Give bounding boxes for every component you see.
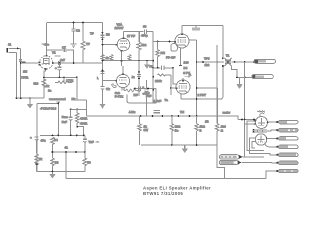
wire UL tap thick <box>216 88 218 99</box>
node TP a <box>202 61 204 63</box>
svg-text:C7: C7 <box>62 46 66 50</box>
node sec b <box>236 76 238 78</box>
resistor R5 <box>55 78 74 83</box>
svg-text:5uF: 5uF <box>62 120 67 124</box>
node bus2 c <box>76 135 78 137</box>
svg-text:T1: T1 <box>226 54 230 58</box>
node gnd-bus <box>29 97 31 99</box>
svg-text:1.5uF: 1.5uF <box>154 99 162 103</box>
wire coupling node vertical <box>152 32 154 103</box>
capacitor input blocking <box>19 60 22 62</box>
svg-text:7a: 7a <box>165 98 169 102</box>
capacitor C3 coupling <box>58 58 102 65</box>
svg-text:1n: 1n <box>48 89 52 93</box>
svg-text:D4: D4 <box>184 66 188 70</box>
wire V1 grid <box>21 62 39 64</box>
capacitor C14 <box>83 135 99 152</box>
node bus e <box>178 115 180 117</box>
node mid link b <box>75 151 77 153</box>
wire V1 cathode <box>44 70 46 98</box>
connector P6 <box>276 161 298 164</box>
capacitor Ck bypass <box>101 87 111 100</box>
wire OPT left leg lower <box>222 67 224 98</box>
node y60 b <box>121 60 123 62</box>
wire b2 stub <box>63 77 65 82</box>
node J1 tip <box>17 48 19 50</box>
node bus g <box>196 115 198 117</box>
node rail-R3 <box>82 22 84 24</box>
wire bars to pill2 <box>267 129 277 132</box>
wire B+ top rail <box>47 22 103 24</box>
svg-text:5=77k: 5=77k <box>115 94 124 98</box>
resistor R17 <box>35 154 43 171</box>
node y60 d <box>146 60 148 62</box>
svg-text:400R: 400R <box>80 117 88 121</box>
wire NFB mid vertical <box>57 102 61 136</box>
wire R12 top link <box>71 108 87 110</box>
resistor R15 <box>195 116 206 145</box>
svg-text:A: A <box>189 73 191 77</box>
wire bus2 <box>40 134 84 136</box>
wire V1 plate riser <box>46 23 48 51</box>
svg-text:B+: B+ <box>175 128 179 132</box>
resistor R3 <box>81 23 94 64</box>
svg-text:caaaaaaaad: caaaaaaaad <box>49 97 66 101</box>
wire V2B plate link <box>121 61 123 66</box>
wire V6 left loop d <box>252 142 256 148</box>
ground bottom left <box>49 171 55 178</box>
resistor R14 <box>170 116 181 145</box>
svg-text:1M: 1M <box>23 70 28 74</box>
node voltage labels <box>183 61 190 76</box>
wire V2A plate line <box>124 31 144 33</box>
svg-text:-POR-POL8: -POR-POL8 <box>40 106 57 110</box>
wire rail right drop <box>102 23 104 87</box>
wire V6 to pill4 <box>265 143 277 146</box>
node b2 c <box>63 76 65 78</box>
connector J1 <box>7 43 21 53</box>
svg-text:J1: J1 <box>8 43 12 47</box>
node R10 <box>170 87 172 89</box>
node R12 mid <box>76 126 78 128</box>
node bus d <box>171 115 173 117</box>
capacitor C5 coupling <box>127 24 153 38</box>
wire bottom long run <box>66 177 266 179</box>
connector P2 <box>276 129 298 132</box>
resistor Rk2 <box>101 55 109 61</box>
node heater bars <box>253 129 268 133</box>
transistor V2B triode <box>115 66 129 90</box>
node bus2 a <box>52 135 54 137</box>
svg-text:B8: B8 <box>55 160 59 164</box>
node NFB branch <box>65 151 67 153</box>
capacitor C12 <box>134 86 156 95</box>
wire bottom link <box>37 170 85 172</box>
wire V5 top feed <box>238 119 257 121</box>
svg-text:F.F: F.F <box>134 93 138 97</box>
node V4 tp arrow <box>185 73 192 79</box>
node bus a <box>140 115 142 117</box>
svg-text:E8: E8 <box>106 33 110 37</box>
wire J1 sleeve down <box>16 52 18 98</box>
wire V4 grid <box>171 87 177 89</box>
node sec c <box>234 61 236 63</box>
node bus labels <box>129 110 230 115</box>
node V3 grid b <box>169 41 171 43</box>
resistor blob right <box>128 55 131 61</box>
node mid link a <box>52 151 54 153</box>
svg-text:5k2: 5k2 <box>142 43 147 47</box>
transistor V2A triode <box>115 23 130 61</box>
svg-text:FFI: FFI <box>161 51 166 55</box>
wire input ground bus <box>16 97 44 99</box>
svg-text:Ck: Ck <box>106 87 110 91</box>
svg-text:V1: V1 <box>52 51 56 55</box>
node collect a <box>171 144 173 146</box>
wire screen cross <box>197 87 218 89</box>
svg-text:2 PDT: 2 PDT <box>198 93 207 97</box>
node collect b <box>196 144 198 146</box>
svg-text:+?uF: +?uF <box>143 92 150 96</box>
transistor V3 pentode <box>174 26 196 66</box>
wire OPT left leg <box>222 26 224 59</box>
wire TP line <box>197 61 218 63</box>
node bottom a <box>52 170 54 172</box>
node rail-C2 <box>73 22 75 24</box>
capacitor C16 <box>101 32 111 40</box>
wire NFB left tall <box>36 104 38 172</box>
connector P1 <box>276 120 298 123</box>
node R12 top <box>76 109 78 111</box>
svg-text:+: + <box>55 66 57 70</box>
connector P5 <box>276 153 298 156</box>
node bus2 b <box>57 135 59 137</box>
wire pocket out <box>127 89 156 103</box>
wire V3 screen right <box>196 40 198 116</box>
wire V5 left loop b <box>245 123 255 125</box>
wire lower bus b2 <box>44 76 77 78</box>
node loop b <box>216 98 218 100</box>
node b2 b <box>59 76 61 78</box>
node b2 d <box>76 76 78 78</box>
ground y60 stub <box>144 61 153 69</box>
connector P4 <box>276 145 298 148</box>
wire heater run a <box>243 156 264 158</box>
svg-text:1k2: 1k2 <box>205 63 210 67</box>
node TP label <box>204 56 210 67</box>
wire mid ground bus <box>87 116 239 120</box>
svg-text:Rk: Rk <box>72 97 76 101</box>
svg-text:TP9: TP9 <box>204 56 210 60</box>
ground OPT <box>236 77 242 89</box>
capacitor C9 coupling <box>153 66 177 84</box>
svg-text:1k: 1k <box>46 84 50 88</box>
wire V2B grid <box>103 80 117 82</box>
svg-text:B: B <box>200 128 202 132</box>
capacitor C15 <box>97 72 105 81</box>
svg-text:+: + <box>30 136 32 140</box>
op-amp V5 regulator <box>256 111 268 129</box>
node screen cross b <box>196 98 198 100</box>
transistor V4 pentode <box>175 78 190 99</box>
svg-text:Aspen ELI Speaker Amplifier: Aspen ELI Speaker Amplifier <box>143 186 211 191</box>
resistor R13 <box>138 116 148 145</box>
svg-text:7M: 7M <box>180 110 185 114</box>
node TP dash <box>55 55 61 56</box>
resistor R18 <box>51 137 58 152</box>
node pocket a <box>134 88 136 90</box>
svg-text:4u7: 4u7 <box>60 58 65 62</box>
svg-text:17 PF: 17 PF <box>127 34 135 38</box>
svg-text:3k3: 3k3 <box>34 82 39 86</box>
wire TP to T1 <box>217 61 224 63</box>
connector H1 heater <box>219 155 242 159</box>
capacitor C6 <box>132 71 142 79</box>
wire NFB box top <box>37 103 58 105</box>
svg-text:BTW91 7/31/2005: BTW91 7/31/2005 <box>143 191 183 196</box>
svg-text:TP: TP <box>90 32 94 36</box>
svg-text:48+: 48+ <box>44 43 49 47</box>
wire V2A grid <box>103 44 118 46</box>
wire secondary bottom <box>237 76 254 78</box>
resistor R20 <box>83 152 91 171</box>
wire V6 left loop c <box>249 138 277 155</box>
svg-text:under: under <box>223 111 231 115</box>
resistor Rk1 <box>34 79 50 88</box>
node bottom b <box>36 164 38 166</box>
node x153 <box>152 60 154 62</box>
svg-text:47u: 47u <box>41 139 46 143</box>
wire bus elbow <box>86 100 88 116</box>
wire V3 plate top <box>182 25 223 27</box>
node tip-bus <box>20 97 22 99</box>
node x153 joints <box>152 67 154 69</box>
node NFB text <box>40 97 76 110</box>
wire bus y60 <box>103 60 154 62</box>
transformer T1 <box>222 54 232 67</box>
wire secondary top <box>232 61 255 63</box>
resistor R7 plate load <box>137 32 147 96</box>
svg-text:2k: 2k <box>39 157 43 161</box>
svg-text:I.: I. <box>97 76 99 80</box>
connector SPK- <box>252 75 273 79</box>
resistor R1 grid stopper <box>21 62 29 79</box>
node screen cross a <box>196 87 198 89</box>
node V2A grid left <box>102 44 104 46</box>
svg-text:B4: B4 <box>54 138 58 142</box>
capacitor C10 electrolytic <box>62 109 73 136</box>
node V5 feed <box>241 119 243 121</box>
node y60 c <box>138 60 140 62</box>
wire B+ feed long <box>244 62 246 157</box>
wire V5 left loop a <box>247 121 264 151</box>
node y60 a <box>102 60 104 62</box>
node C9 left <box>157 67 159 69</box>
connector P7 <box>276 169 298 172</box>
op-amp V1 pentode <box>39 50 60 70</box>
svg-text:220k: 220k <box>155 79 162 83</box>
node bus f <box>189 115 191 117</box>
svg-text:41: 41 <box>65 145 69 149</box>
connector SPK+ <box>254 59 276 63</box>
svg-text:1k: 1k <box>106 56 110 60</box>
ground collect <box>182 145 188 153</box>
wire lower collect <box>141 144 217 146</box>
svg-text:470p: 470p <box>141 34 148 38</box>
wire UL tap vertical <box>216 45 218 88</box>
node cap-right <box>73 62 75 64</box>
wire mid link <box>51 151 85 153</box>
node V2A plate <box>138 31 140 33</box>
resistor R16 <box>205 116 226 145</box>
wire V5 to pill1 <box>268 121 278 123</box>
wire nfb top link <box>75 99 87 101</box>
svg-text:400R: 400R <box>80 122 88 126</box>
node bus2 d <box>83 135 85 137</box>
node 48V <box>42 43 50 47</box>
wire heater run b <box>242 161 272 163</box>
node V3 grid a <box>157 41 159 43</box>
wire V3 grid curl <box>171 44 178 52</box>
op-amp V6 regulator <box>255 134 266 145</box>
connector P3 <box>276 137 298 140</box>
capacitor C7 <box>134 88 142 97</box>
svg-text:1B: 1B <box>205 119 209 123</box>
node V5 pins <box>254 120 269 139</box>
resistor R12 <box>75 109 88 135</box>
node pocket b <box>147 88 149 90</box>
connector H2 heater <box>219 160 241 164</box>
wire run to P7 <box>266 171 277 178</box>
capacitor C7 <box>47 46 74 63</box>
svg-text:12AX7: 12AX7 <box>115 26 124 30</box>
wire V4 plate loop <box>181 97 223 99</box>
node sec d <box>244 76 246 78</box>
wire loop drop thick <box>216 99 218 116</box>
svg-text:Jn: Jn <box>132 75 136 79</box>
wire V3 grid <box>153 41 175 43</box>
svg-text:J.Mu: J.Mu <box>129 110 136 114</box>
node plate-cap <box>58 62 60 64</box>
node loop a <box>196 98 198 100</box>
svg-text:PP-GF: PP-GF <box>166 55 175 59</box>
wire J1 tip down <box>20 49 22 99</box>
resistor R19 <box>51 152 59 171</box>
resistor blob left <box>110 55 113 61</box>
node b2 a <box>43 76 45 78</box>
node screen <box>196 61 198 63</box>
svg-text:68: 68 <box>143 24 147 28</box>
node pin pads overlay <box>115 41 177 89</box>
wire V6 to pill3 <box>267 138 277 140</box>
node grid junction <box>20 62 22 64</box>
wire NFB branch down <box>65 152 67 178</box>
wire R5 drop <box>76 77 78 100</box>
node bus h <box>216 115 218 117</box>
resistor Rk3 <box>112 84 138 98</box>
svg-text:140: 140 <box>184 61 189 65</box>
svg-text:J.77k: J.77k <box>66 78 74 82</box>
wire secondary leg <box>232 66 238 77</box>
node TP b <box>216 61 218 63</box>
capacitor C2 <box>72 23 81 45</box>
node sec cc <box>244 61 246 63</box>
svg-text:8W: 8W <box>144 128 149 132</box>
node sec e <box>253 61 255 63</box>
node bus c <box>162 115 164 117</box>
capacitor C11 electrolytic <box>95 80 97 86</box>
ground arrow mid <box>100 99 106 109</box>
node y60 e <box>102 70 104 72</box>
svg-text:TP: TP <box>86 42 90 46</box>
svg-text:5um: 5um <box>62 115 68 119</box>
resistor R9 <box>156 42 165 68</box>
wire stack row6 <box>272 161 277 164</box>
resistor R10 <box>155 55 175 95</box>
wire collect drop <box>217 145 224 178</box>
node mid link c <box>84 151 86 153</box>
resistor screen tap <box>192 26 200 31</box>
ground input <box>27 98 33 108</box>
ground near C2 <box>71 44 77 47</box>
svg-text:TuF: TuF <box>89 140 94 144</box>
svg-text:770R: 770R <box>21 75 29 79</box>
capacitor C13 electrolytic <box>30 136 46 154</box>
node sleeve-bus <box>16 97 18 99</box>
capacitor C8 electrolytic <box>142 80 151 116</box>
svg-text:50: 50 <box>87 160 91 164</box>
svg-text:C2: C2 <box>76 29 80 33</box>
capacitor C4 polarized <box>55 63 62 77</box>
node bus b <box>152 115 154 117</box>
